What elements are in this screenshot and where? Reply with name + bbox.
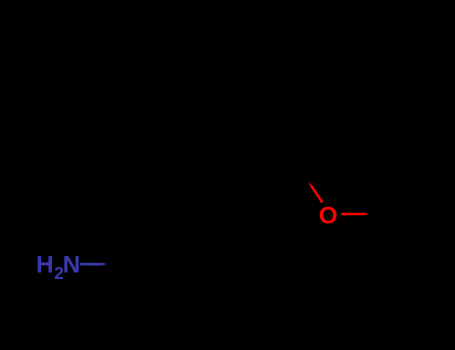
svg-text:H: H bbox=[36, 252, 53, 279]
svg-text:O: O bbox=[319, 203, 338, 230]
svg-text:N: N bbox=[63, 252, 80, 279]
